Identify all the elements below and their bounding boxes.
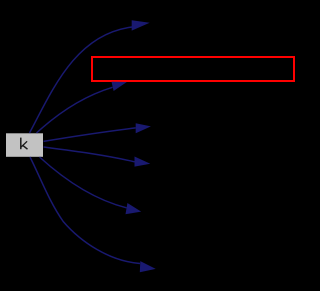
wire edge 5 (40, 157, 127, 208)
wire edge 3 (44, 128, 136, 141)
arrowhead 2 (112, 82, 127, 91)
arrowhead 1 (132, 20, 150, 30)
node k (6, 133, 43, 157)
wire edge 2 (37, 87, 113, 133)
red highlighted node (92, 57, 294, 81)
label k (21, 138, 28, 150)
arrowhead 3 (136, 123, 151, 133)
wire edge 6 (30, 157, 140, 264)
wire edge 1 (30, 27, 133, 133)
arrowhead 4 (135, 157, 151, 167)
wire edge 4 (44, 147, 135, 162)
arrowhead 5 (126, 203, 142, 214)
arrowhead 6 (140, 261, 156, 272)
